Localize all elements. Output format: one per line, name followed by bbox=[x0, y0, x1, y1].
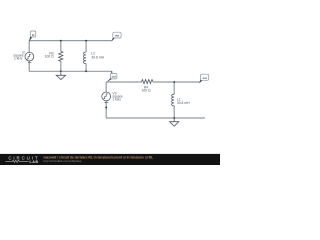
svg-text:100 Ω: 100 Ω bbox=[45, 55, 55, 59]
svg-text:out: out bbox=[203, 76, 207, 80]
svg-text:39.8 mH: 39.8 mH bbox=[177, 101, 190, 105]
inductor L2 vertical bbox=[85, 41, 87, 72]
source I2 (square 1 kHz) bbox=[25, 52, 34, 61]
ground (lower) bbox=[173, 118, 175, 122]
svg-text:LAB: LAB bbox=[30, 160, 39, 164]
label I2 square 1 kHz bbox=[13, 51, 25, 61]
junction dot R3 bottom bbox=[60, 70, 62, 72]
node flag middle bbox=[111, 71, 113, 73]
junction dot L2 bottom bbox=[85, 70, 87, 72]
junction dot below source V3 bbox=[105, 106, 107, 108]
junction dot L2 top bbox=[85, 40, 87, 42]
junction dot L1 bottom bbox=[173, 117, 175, 119]
label V3 square 1 kHz bbox=[112, 91, 122, 101]
label L2 39.8 mH bbox=[91, 51, 104, 59]
junction dot R3 top bbox=[60, 40, 62, 42]
CircuitLab logo wire+LAB bbox=[6, 160, 29, 162]
wire: lower circuit top rail bbox=[106, 81, 200, 83]
resistor R4 horizontal bbox=[142, 80, 154, 84]
svg-text:out: out bbox=[112, 75, 116, 79]
label R4 100 ohm bbox=[141, 86, 151, 93]
svg-text:http://circuitlab.com/cc8p4wq: http://circuitlab.com/cc8p4wq bbox=[44, 159, 82, 163]
svg-text:100 Ω: 100 Ω bbox=[141, 89, 151, 93]
inductor L1 vertical bbox=[173, 82, 175, 118]
ground (upper) bbox=[60, 71, 62, 75]
svg-text:39.8 mH: 39.8 mH bbox=[91, 56, 104, 60]
polarity tick below source I2 bbox=[28, 62, 31, 64]
label L1 39.8 mH bbox=[177, 98, 190, 105]
svg-text:out: out bbox=[115, 34, 119, 38]
wire: lower circuit bottom rail bbox=[106, 117, 205, 119]
svg-text:in: in bbox=[32, 33, 35, 37]
svg-text:1 kHz: 1 kHz bbox=[14, 57, 23, 61]
resistor R3 vertical bbox=[60, 41, 62, 72]
node flag lower-right bbox=[199, 80, 202, 83]
wire: upper circuit top rail bbox=[29, 40, 112, 42]
svg-text:1 kHz: 1 kHz bbox=[112, 97, 121, 101]
node flag upper-left bbox=[29, 37, 32, 42]
bottom watermark bar bbox=[0, 154, 220, 165]
junction dot L1 top bbox=[173, 81, 175, 83]
polarity tick below source V3 bbox=[104, 102, 108, 104]
wire: upper circuit bottom rail bbox=[29, 70, 112, 72]
wire: lower left vertical (source leads) bbox=[105, 82, 107, 118]
label R3 100 ohm bbox=[45, 52, 55, 59]
wire: upper left vertical (source leads) bbox=[28, 41, 30, 72]
node flag upper-right bbox=[112, 38, 115, 42]
source V3 (square 1 kHz) bbox=[102, 92, 111, 101]
